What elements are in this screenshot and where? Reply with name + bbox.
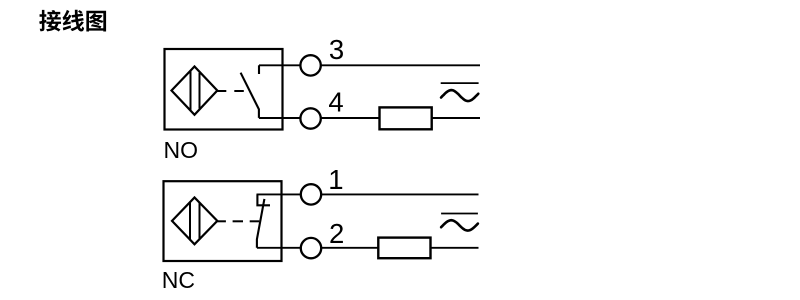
NC switch contact (blade and fixed contact hook)	[257, 194, 270, 247]
wire: NO switch to terminal 3	[259, 64, 300, 66]
wire: terminal 2 to load NC	[321, 247, 378, 249]
terminal circle pin 4	[300, 108, 320, 128]
svg-text:1: 1	[328, 164, 343, 195]
wire: NC switch to terminal 2	[257, 247, 301, 249]
wire: load to supply (bottom NC)	[431, 247, 479, 249]
proximity sensor symbol (diamond) NO	[172, 67, 218, 115]
proximity sensor symbol (diamond) NC	[172, 198, 217, 245]
AC source symbol NC	[441, 214, 478, 231]
wire: terminal 1 to supply (top NC)	[321, 193, 478, 195]
svg-text:2: 2	[329, 218, 344, 249]
svg-text:NO: NO	[164, 137, 199, 163]
wire: terminal 4 to load NO	[321, 117, 380, 119]
wire: load to supply (bottom NO)	[432, 117, 480, 119]
svg-text:4: 4	[328, 87, 343, 118]
terminal circle pin 3	[300, 55, 320, 75]
terminal circle pin 1	[301, 184, 321, 204]
title 接线图 (wiring diagram)	[39, 10, 106, 32]
wire: NC switch to terminal 1	[257, 193, 301, 195]
load resistor NC	[378, 238, 430, 259]
svg-text:3: 3	[329, 34, 344, 65]
svg-text:NC: NC	[162, 267, 195, 293]
dashed actuation link NC	[217, 220, 259, 222]
wire: terminal 3 to supply (top NO)	[321, 64, 480, 66]
terminal circle pin 2	[301, 238, 321, 258]
sensor body box NC	[164, 181, 282, 261]
dashed actuation link NO	[217, 90, 243, 92]
load resistor NO	[380, 107, 432, 129]
wire: NO switch to terminal 4	[259, 117, 301, 119]
NO switch contact (blade and fixed contact)	[241, 65, 259, 118]
AC source symbol NO	[441, 83, 479, 101]
sensor body box NO	[165, 49, 283, 130]
